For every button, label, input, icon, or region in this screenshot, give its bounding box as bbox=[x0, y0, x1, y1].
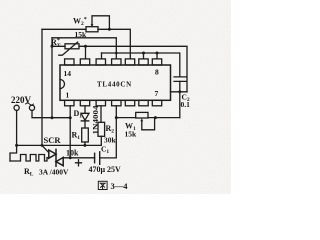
svg-text:3—4: 3—4 bbox=[111, 181, 129, 191]
label RL bbox=[24, 167, 34, 178]
label TL440CN bbox=[97, 81, 132, 89]
node R1 bottom bbox=[83, 144, 86, 147]
wire: W1 row bbox=[116, 117, 180, 119]
IC top pins 14,13,12,11,10,9,8 bbox=[65, 59, 162, 65]
svg-text:3A /400V: 3A /400V bbox=[39, 168, 69, 177]
IC notch bbox=[60, 80, 65, 89]
resistor R1 bbox=[82, 128, 89, 142]
node: gate line to left rail bbox=[15, 144, 18, 147]
node thermistor right / pin13 bbox=[84, 45, 87, 48]
label 1N4004 vertical bbox=[93, 105, 100, 135]
label 0.1 bbox=[181, 100, 191, 109]
svg-text:0.1: 0.1 bbox=[181, 100, 191, 109]
node W1 right bbox=[154, 116, 157, 119]
wire: inner box top y38 to pin11 bbox=[52, 38, 116, 53]
svg-text:10k: 10k bbox=[66, 149, 79, 158]
svg-text:SCR: SCR bbox=[44, 135, 62, 145]
label 15k of W2 bbox=[75, 30, 88, 39]
wire: AC right terminal down and right bbox=[32, 110, 70, 117]
svg-text:30k: 30k bbox=[104, 136, 117, 145]
wire: thermistor row bbox=[52, 46, 187, 92]
AC source label 220V bbox=[11, 95, 32, 105]
label SCR bbox=[44, 135, 62, 145]
wire: pin4 drop bbox=[100, 106, 117, 158]
label W1 bbox=[125, 122, 136, 133]
wire: D1 to R1 bbox=[84, 121, 86, 128]
node W2 wiper join bbox=[108, 28, 111, 31]
wire: drop pin8 bbox=[156, 53, 158, 59]
node triac-right / pin1 drop bbox=[69, 156, 72, 159]
pin number 8 bbox=[155, 68, 159, 77]
label C1 bbox=[101, 145, 109, 156]
label 10k bbox=[66, 149, 79, 158]
C1 plus sign bbox=[76, 160, 82, 166]
node AC wire / inner rail bbox=[51, 116, 54, 119]
potentiometer W2 body bbox=[86, 27, 98, 32]
pin number 14 bbox=[64, 69, 72, 78]
svg-text:7: 7 bbox=[155, 89, 159, 98]
node pin4 / W1 wire bbox=[115, 116, 118, 119]
svg-text:1: 1 bbox=[66, 91, 70, 100]
resistor R2 bbox=[98, 122, 105, 136]
IC bottom pins 1,2,3,4,5,6,7 bbox=[65, 100, 162, 106]
wire: inner left rail x52 bbox=[51, 38, 53, 118]
wire: drop pin11 bbox=[115, 53, 117, 59]
wire: outer left rail x42 bbox=[41, 29, 43, 145]
paper grain bbox=[0, 0, 231, 194]
IC U1 TL440CN body bbox=[60, 65, 171, 100]
wire: drop to pin13 bbox=[85, 46, 87, 58]
wire: R1 bottom bbox=[84, 142, 86, 145]
capacitor C2 bbox=[174, 77, 186, 82]
svg-text:15k: 15k bbox=[125, 130, 138, 139]
pin number 1 bbox=[66, 91, 70, 100]
label 30k bbox=[104, 136, 117, 145]
label 15k of W1 bbox=[125, 130, 138, 139]
diode D1 bbox=[81, 113, 89, 120]
svg-text:8: 8 bbox=[155, 68, 159, 77]
wire: pin2 to diode D1 bbox=[84, 106, 86, 114]
node line/pin11 bbox=[115, 52, 118, 55]
wire: top rail y29 to pot W2 bbox=[42, 28, 86, 30]
thermistor slash bbox=[59, 42, 78, 55]
wire: pin1 drop vertical bbox=[69, 106, 71, 158]
potentiometer W1 body bbox=[136, 112, 148, 118]
wire: pot W2 right to pin10 bbox=[98, 29, 130, 58]
triac SCR bbox=[49, 150, 56, 158]
wire: gate line bbox=[17, 144, 85, 146]
AC terminal right bbox=[29, 105, 34, 110]
wire: triac right to C1 bbox=[63, 157, 94, 159]
wire: drop pin12 bbox=[101, 53, 103, 59]
AC terminal left bbox=[14, 105, 19, 110]
node C2 junction bbox=[178, 90, 181, 93]
triac gate diagonal bbox=[42, 145, 49, 152]
caption 3-4 bbox=[98, 181, 107, 189]
label 3A/400V bbox=[39, 168, 69, 177]
label R2 bbox=[106, 124, 115, 135]
label RT* bbox=[51, 37, 61, 49]
wire: drop pin9 bbox=[143, 53, 145, 59]
node on gate line at rail x42 bbox=[41, 144, 44, 147]
svg-text:TL440CN: TL440CN bbox=[97, 81, 132, 89]
resistor RL heater element bbox=[10, 155, 49, 162]
label D1 bbox=[74, 109, 83, 120]
thermistor RT body bbox=[65, 44, 79, 49]
svg-text:470μ 25V: 470μ 25V bbox=[89, 165, 122, 174]
node pin1 / AC wire bbox=[69, 116, 72, 119]
wire: IC right edge to outer rail y92 bbox=[171, 91, 188, 93]
wire: pin3 to R2 bbox=[100, 106, 102, 123]
W1 wiper arrow loop bbox=[142, 118, 155, 130]
wire: C2 bottom lead bbox=[179, 81, 181, 117]
wire: R1 node to R2 bottom bbox=[85, 136, 101, 145]
node thermistor left on rail bbox=[51, 45, 54, 48]
capacitor C1 electrolytic bbox=[94, 153, 96, 162]
svg-text:1N4004: 1N4004 bbox=[93, 105, 100, 135]
node pin9 bbox=[142, 52, 145, 55]
node pin8 bbox=[156, 52, 159, 55]
label 470u 25V bbox=[89, 165, 122, 174]
label R1 bbox=[72, 131, 81, 142]
wire: left AC rail down bbox=[10, 110, 17, 161]
pin number 7 bbox=[155, 89, 159, 98]
W2 wiper arrow and loop bbox=[92, 16, 109, 29]
svg-text:14: 14 bbox=[64, 69, 72, 78]
label W2* bbox=[73, 17, 87, 28]
label C2 bbox=[182, 93, 190, 104]
wire: pins 12/11/9/8 line y53 to C2 bbox=[102, 53, 180, 77]
220V underline tilde bbox=[26, 103, 34, 105]
